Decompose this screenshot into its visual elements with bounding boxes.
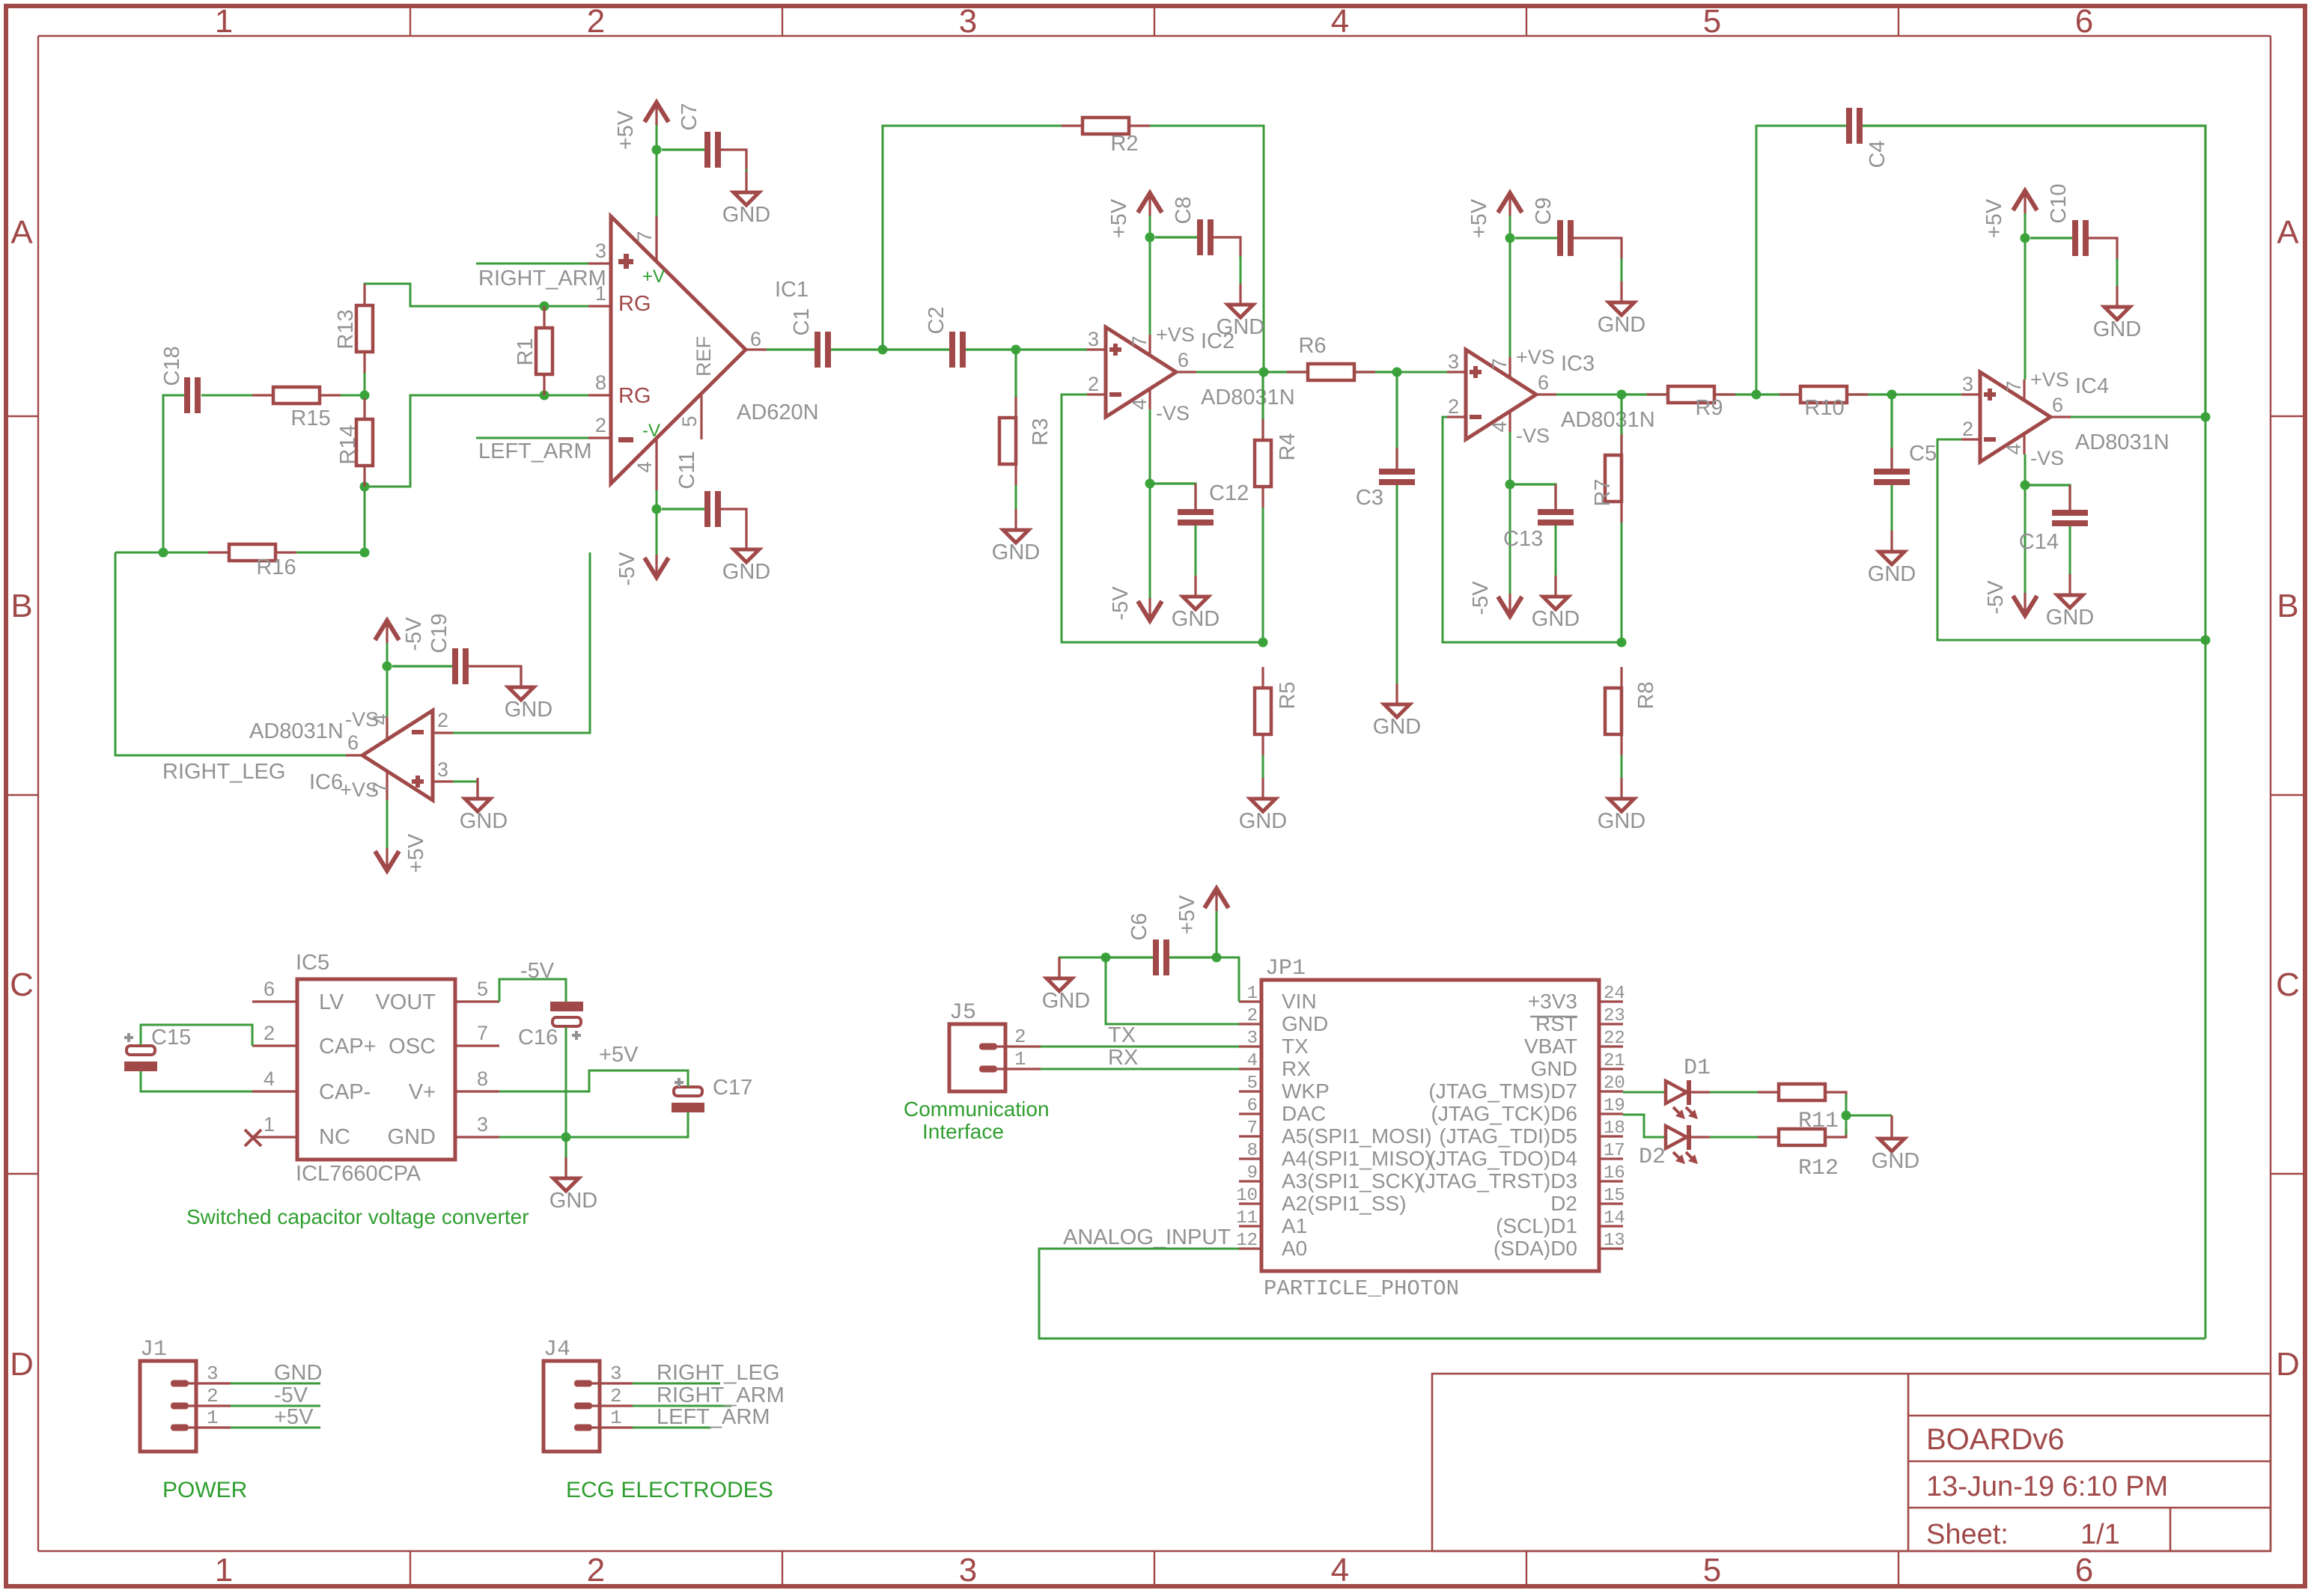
svg-text:+5V: +5V [614, 110, 638, 150]
svg-text:GND: GND [722, 560, 770, 584]
svg-text:(JTAG_TRST)D3: (JTAG_TRST)D3 [1418, 1169, 1577, 1193]
svg-text:4: 4 [1331, 1552, 1349, 1589]
junction IC4 VN node [2021, 481, 2030, 490]
svg-text:J1: J1 [140, 1337, 167, 1362]
wire C1 left lead [767, 348, 815, 350]
junction IC4 VP node [2021, 234, 2030, 243]
svg-text:VOUT: VOUT [375, 990, 436, 1014]
wire J4 pin3 [633, 1383, 720, 1385]
junction IC4 in node [1887, 390, 1897, 400]
svg-text:R5: R5 [1276, 681, 1300, 709]
wire LED gnd node wire [1845, 1094, 1848, 1135]
svg-text:2: 2 [264, 1022, 275, 1044]
wire V+ net [499, 1070, 688, 1091]
wire IC4 out [2071, 416, 2205, 418]
wire IC4 VP [2024, 213, 2027, 380]
svg-text:POWER: POWER [162, 1478, 247, 1502]
wire C1 right lead [831, 348, 883, 350]
junction IC4 fb node [2201, 636, 2211, 645]
svg-text:C3: C3 [1356, 486, 1383, 510]
net label LEFT_ARM [478, 439, 591, 463]
svg-text:+VS: +VS [2030, 368, 2069, 391]
resistor R6 [1298, 334, 1354, 380]
svg-text:-5V: -5V [615, 552, 639, 586]
svg-text:+5V: +5V [1467, 198, 1491, 238]
pin stubs (resistor leads) [208, 126, 2070, 755]
ground GND LED [1872, 1118, 1919, 1173]
wire IC6 VN [386, 643, 389, 716]
svg-text:-V: -V [642, 421, 660, 441]
svg-text:GND: GND [549, 1189, 597, 1213]
svg-text:1/1: 1/1 [2080, 1519, 2120, 1550]
wire D2 cathode lead [1691, 1136, 1710, 1138]
wire IC4 feedback [1937, 439, 2205, 640]
svg-text:3: 3 [595, 240, 606, 262]
wire J1 pin2 [231, 1405, 320, 1407]
connector J4 [544, 1337, 633, 1452]
svg-text:3: 3 [477, 1113, 488, 1136]
capacitor C3 [1379, 469, 1415, 485]
svg-text:R2: R2 [1110, 132, 1138, 156]
wire C6 gnd arm [1059, 957, 1106, 960]
svg-text:REF: REF [692, 336, 715, 377]
label C5 [1909, 442, 1937, 466]
svg-text:-5V: -5V [1984, 580, 2008, 615]
caption Communication Interface [904, 1097, 1050, 1143]
wire C12 top lead [1150, 484, 1196, 509]
wire C3 bottom [1396, 485, 1398, 683]
svg-text:R8: R8 [1634, 681, 1658, 709]
svg-text:6: 6 [750, 328, 761, 350]
svg-text:BOARDv6: BOARDv6 [1926, 1423, 2065, 1456]
junction C1C2 node [878, 345, 888, 355]
wire C9 right lead [1574, 238, 1622, 261]
wire J4 pin1 [633, 1427, 711, 1429]
ground GND R8 [1598, 778, 1645, 833]
wire C3 top lead [1395, 372, 1398, 469]
capacitor C13 [1538, 509, 1574, 526]
svg-text:+5V: +5V [1175, 895, 1199, 934]
wire C9 left lead [1515, 237, 1557, 239]
supply +5V IC6 [375, 833, 428, 873]
ground GND C13 [1532, 576, 1580, 631]
resistor R13 [334, 305, 373, 352]
wire R12 left lead [1758, 1136, 1779, 1138]
svg-text:JP1: JP1 [1265, 956, 1306, 981]
ground GND C6 [1042, 957, 1090, 1013]
wire D1-R11 [1710, 1091, 1758, 1094]
svg-text:GND: GND [1282, 1012, 1328, 1035]
svg-text:1: 1 [215, 1552, 233, 1589]
junction C6 right node [1212, 953, 1222, 963]
net labels J4 [657, 1361, 785, 1429]
svg-text:+VS: +VS [1156, 323, 1195, 346]
svg-text:1: 1 [1014, 1048, 1026, 1070]
svg-text:C5: C5 [1909, 442, 1937, 466]
wire IC6 pin2 [453, 552, 590, 733]
op-amp IC6 AD8031N [249, 708, 453, 801]
svg-text:C17: C17 [713, 1076, 752, 1100]
ground GND C7 [722, 171, 770, 227]
wire C9 gnd wire [1621, 258, 1623, 281]
svg-text:7: 7 [2003, 380, 2025, 392]
wire C6 left lead [1106, 956, 1153, 958]
supply +5V IC2 [1107, 193, 1162, 238]
svg-text:GND: GND [2093, 317, 2141, 341]
svg-text:RIGHT_ARM: RIGHT_ARM [657, 1383, 785, 1407]
svg-text:RG: RG [618, 384, 651, 408]
wire R11 left lead [1758, 1091, 1779, 1093]
wire C11 left lead [662, 508, 704, 510]
svg-text:R7: R7 [1591, 478, 1615, 506]
caption POWER [162, 1478, 247, 1502]
svg-text:2: 2 [1247, 1006, 1258, 1026]
capacitor C17 (polarized) [672, 1076, 752, 1112]
svg-text:CAP-: CAP- [319, 1080, 371, 1104]
svg-text:B: B [10, 588, 32, 624]
junction R16 node [360, 548, 370, 558]
svg-text:R6: R6 [1298, 334, 1326, 358]
svg-text:C19: C19 [427, 613, 451, 653]
capacitor C6 [1127, 913, 1169, 975]
wire R3 bottom [1015, 464, 1017, 509]
svg-text:Communication: Communication [904, 1097, 1050, 1121]
svg-text:+5V: +5V [599, 1043, 639, 1067]
wire C7 left lead [662, 148, 704, 150]
svg-text:15: 15 [1604, 1186, 1625, 1206]
svg-text:5: 5 [1703, 3, 1721, 40]
svg-text:20: 20 [1604, 1073, 1625, 1094]
svg-text:D: D [10, 1346, 34, 1383]
svg-text:4: 4 [1488, 421, 1511, 432]
resistor R1 [514, 328, 552, 374]
wire R9 left lead [1622, 393, 1668, 395]
wire IC2 VP [1149, 216, 1151, 335]
svg-text:IC3: IC3 [1561, 352, 1595, 376]
svg-text:2: 2 [1962, 418, 1973, 440]
svg-text:14: 14 [1604, 1208, 1625, 1228]
ground GND C12 [1172, 576, 1220, 631]
resistor R14 [336, 419, 373, 466]
label C13 [1503, 527, 1543, 551]
wire C11 right lead [721, 509, 746, 529]
svg-text:A4(SPI1_MISO): A4(SPI1_MISO) [1282, 1147, 1432, 1170]
wire C6 right lead [1169, 956, 1217, 958]
svg-text:D2: D2 [1550, 1192, 1577, 1215]
svg-text:-5V: -5V [274, 1383, 308, 1407]
op-amp IC2 AD8031N [1087, 323, 1295, 424]
wire C10 left lead [2030, 237, 2072, 239]
svg-text:LV: LV [319, 990, 344, 1014]
wire C15 bottom [141, 1071, 252, 1091]
svg-text:3: 3 [1962, 373, 1973, 395]
svg-text:ICL7660CPA: ICL7660CPA [296, 1162, 421, 1186]
wire LEFT_ARM [476, 437, 588, 439]
wire C7 gnd wire [746, 169, 748, 174]
svg-text:17: 17 [1604, 1141, 1625, 1161]
capacitor C9 [1532, 197, 1574, 256]
svg-text:+V: +V [642, 266, 665, 287]
svg-text:12: 12 [1236, 1231, 1258, 1251]
resistor R16 [229, 544, 296, 579]
svg-text:GND: GND [992, 540, 1040, 564]
wire IC4 out drop [2205, 417, 2207, 1338]
wire C17 bottom [499, 1112, 688, 1137]
svg-text:GND: GND [1531, 1057, 1577, 1080]
svg-text:C9: C9 [1532, 197, 1556, 225]
svg-text:RX: RX [1108, 1046, 1138, 1070]
wire C13 top lead [1510, 484, 1556, 509]
label R11 [1798, 1109, 1839, 1134]
LED D2 [1639, 1125, 1698, 1170]
svg-text:GND: GND [1172, 607, 1220, 631]
svg-text:GND: GND [1042, 989, 1090, 1013]
junction LED node [1842, 1111, 1851, 1121]
svg-text:R14: R14 [336, 424, 360, 464]
junction IC2 out node [1259, 368, 1269, 377]
svg-text:+VS: +VS [1516, 346, 1555, 368]
wire IC5 gnd drop [564, 1137, 567, 1178]
svg-text:18: 18 [1604, 1118, 1625, 1139]
resistor R3 [999, 418, 1053, 464]
wire GND arm [1106, 957, 1239, 1024]
ground GND IC5 [549, 1157, 597, 1213]
svg-text:GND: GND [1598, 313, 1645, 337]
svg-text:13: 13 [1604, 1231, 1625, 1251]
svg-text:3: 3 [437, 758, 448, 781]
svg-text:NC: NC [319, 1125, 350, 1149]
supply +5V JP1 [1175, 889, 1228, 934]
svg-text:8: 8 [595, 371, 606, 394]
wire C16 bottom [565, 1027, 567, 1137]
svg-text:6: 6 [1247, 1096, 1258, 1116]
resistor R12 [1779, 1129, 1825, 1145]
resistor R8 [1605, 681, 1658, 734]
junction IC5 gnd node [561, 1133, 571, 1142]
net label RIGHT_ARM [478, 266, 606, 290]
svg-text:5: 5 [1703, 1552, 1721, 1589]
svg-text:C6: C6 [1127, 913, 1151, 940]
svg-text:3: 3 [1448, 350, 1459, 373]
svg-text:6: 6 [2075, 3, 2093, 40]
svg-text:C14: C14 [2019, 530, 2059, 554]
svg-text:D2: D2 [1639, 1145, 1666, 1170]
connector J5 [949, 1000, 1041, 1091]
svg-text:24: 24 [1604, 984, 1625, 1004]
svg-text:C: C [10, 966, 34, 1003]
ground GND C5 [1868, 531, 1916, 586]
supply -5V IC2 [1109, 586, 1162, 621]
svg-text:6: 6 [2052, 394, 2063, 416]
svg-text:4: 4 [633, 461, 656, 472]
svg-text:6: 6 [1538, 371, 1549, 394]
svg-text:RG: RG [618, 292, 651, 316]
supply -5V IC4 [1984, 580, 2037, 615]
svg-text:5: 5 [678, 415, 701, 427]
svg-text:R15: R15 [290, 406, 330, 430]
supply +5V IC3 [1467, 193, 1522, 238]
wire IC4 in wire [1892, 394, 1961, 396]
wire TX wire [1041, 1046, 1239, 1048]
caption ECG ELECTRODES [566, 1478, 773, 1502]
svg-text:6: 6 [264, 978, 275, 1000]
LED D1 [1666, 1056, 1711, 1119]
wire R6 left lead [1264, 371, 1308, 373]
svg-text:VBAT: VBAT [1524, 1035, 1577, 1058]
svg-text:ECG ELECTRODES: ECG ELECTRODES [566, 1478, 773, 1502]
resistor R2 [1083, 118, 1139, 156]
capacitor C1 [790, 308, 831, 368]
op-amp IC4 AD8031N [1961, 368, 2170, 469]
svg-text:-VS: -VS [1516, 424, 1550, 447]
wire IC3 out [1556, 394, 1622, 396]
wire C12 bottom [1195, 526, 1197, 576]
svg-text:4: 4 [1128, 398, 1151, 409]
capacitor C12 [1178, 481, 1249, 526]
resistor R15 [273, 387, 331, 430]
wire C7 right lead [721, 150, 746, 171]
capacitor C11 [675, 451, 721, 527]
wire VN IC1 [656, 490, 658, 555]
wire IC2 feedback [1062, 395, 1263, 642]
svg-text:DAC: DAC [1282, 1102, 1326, 1125]
svg-text:D1: D1 [1684, 1056, 1711, 1081]
svg-text:C4: C4 [1866, 140, 1890, 168]
op-amp IC1 AD620N [588, 215, 819, 490]
svg-text:IC6: IC6 [309, 770, 343, 794]
resistor R9 [1668, 386, 1723, 420]
wire RIGHT_ARM [476, 263, 588, 265]
wire R15 left [201, 395, 273, 397]
junction IC3 fb node [1617, 638, 1627, 648]
junction RG8 node [360, 482, 370, 492]
svg-text:IC1: IC1 [775, 278, 809, 302]
svg-text:PARTICLE_PHOTON: PARTICLE_PHOTON [1264, 1276, 1459, 1301]
svg-text:13-Jun-19 6:10 PM: 13-Jun-19 6:10 PM [1926, 1471, 2168, 1502]
wire R16 left [115, 552, 229, 554]
svg-text:A1: A1 [1282, 1214, 1307, 1237]
wire R6 right lead [1354, 371, 1397, 373]
junction C2R3 node [1011, 345, 1021, 355]
svg-text:(JTAG_TCK)D6: (JTAG_TCK)D6 [1431, 1102, 1578, 1125]
svg-text:V+: V+ [409, 1080, 436, 1104]
op-amp IC3 AD8031N [1447, 346, 1655, 447]
svg-text:2: 2 [610, 1385, 622, 1407]
wire C15 top [141, 1025, 252, 1046]
svg-text:+5V: +5V [274, 1405, 314, 1429]
wire C5 bottom [1891, 485, 1893, 531]
wire VIN arm [1217, 957, 1239, 1002]
wire C2 left lead [883, 348, 949, 350]
svg-text:GND: GND [1217, 315, 1264, 339]
wire R7 top lead [1620, 395, 1622, 455]
wire J4 pin2 [633, 1405, 731, 1407]
svg-text:22: 22 [1604, 1029, 1625, 1049]
svg-text:2: 2 [595, 414, 606, 436]
ground GND IC6 [460, 778, 508, 833]
wire R12 right lead [1825, 1129, 1846, 1137]
wire C5 top lead [1890, 395, 1893, 469]
capacitor C18 [160, 346, 201, 413]
capacitor C8 [1172, 196, 1214, 255]
svg-text:+3V3: +3V3 [1528, 990, 1577, 1013]
wire LED gnd drop [1890, 1115, 1893, 1139]
svg-text:AD8031N: AD8031N [1201, 386, 1295, 409]
capacitor C10 [2047, 183, 2089, 256]
svg-text:C2: C2 [925, 306, 949, 334]
svg-text:C11: C11 [675, 451, 699, 489]
svg-text:10: 10 [1236, 1186, 1258, 1206]
wire IC3 in wire [1397, 371, 1447, 374]
svg-text:(JTAG_TDI)D5: (JTAG_TDI)D5 [1439, 1124, 1577, 1148]
IC JP1 PARTICLE_PHOTON [1236, 956, 1625, 1301]
svg-text:GND: GND [1239, 809, 1287, 833]
svg-text:R3: R3 [1029, 418, 1053, 445]
wire IC2 VN [1149, 409, 1151, 599]
label R12 [1798, 1156, 1839, 1181]
wire D1 cathode lead [1691, 1091, 1710, 1093]
wire R7 bottom [1621, 502, 1623, 642]
svg-text:19: 19 [1604, 1096, 1625, 1116]
svg-text:TX: TX [1108, 1023, 1136, 1047]
svg-text:4: 4 [1247, 1051, 1258, 1071]
wire R5 bottom [1262, 734, 1264, 799]
capacitor C2 [925, 306, 966, 368]
supply +5V IC1 [614, 103, 669, 150]
svg-text:C18: C18 [160, 346, 184, 386]
svg-text:3: 3 [207, 1362, 219, 1385]
wire C13 bottom [1555, 526, 1557, 576]
svg-text:2: 2 [587, 3, 605, 40]
svg-text:5: 5 [477, 978, 488, 1000]
wire IC2 out [1196, 371, 1264, 374]
svg-text:+5V: +5V [1982, 198, 2006, 238]
wire IC6 pin3 drop [476, 782, 478, 799]
wire C8 right lead [1214, 237, 1240, 258]
svg-text:J4: J4 [544, 1337, 570, 1362]
svg-text:LEFT_ARM: LEFT_ARM [657, 1405, 770, 1429]
junction IC3 VP node [1505, 234, 1515, 243]
svg-text:3: 3 [1247, 1029, 1258, 1049]
svg-text:2: 2 [207, 1385, 219, 1407]
svg-text:OSC: OSC [389, 1035, 436, 1059]
svg-text:(SCL)D1: (SCL)D1 [1496, 1214, 1577, 1237]
svg-text:3: 3 [959, 1552, 977, 1589]
svg-text:5: 5 [1247, 1073, 1258, 1094]
junction VP IC1 node [652, 145, 662, 155]
net label ANALOG_INPUT [1063, 1225, 1231, 1249]
svg-text:9: 9 [1247, 1163, 1258, 1184]
junction IC2 VN node [1145, 479, 1155, 489]
wire IC3 VP [1509, 216, 1511, 357]
svg-text:C8: C8 [1172, 196, 1196, 224]
wire C4 right lead [1863, 126, 2205, 417]
wire J1 pin1 [231, 1427, 320, 1429]
wire D1 anode [1623, 1091, 1666, 1094]
ground GND R3 [992, 509, 1040, 564]
IC5 ICL7660CPA [245, 951, 499, 1186]
wire C8 gnd wire [1240, 256, 1242, 284]
svg-text:R12: R12 [1798, 1156, 1839, 1181]
svg-text:2: 2 [1448, 395, 1459, 418]
svg-text:7: 7 [477, 1022, 488, 1044]
wire IC3 feedback [1443, 417, 1622, 642]
supply -5V IC6 [375, 617, 426, 651]
svg-text:(JTAG_TMS)D7: (JTAG_TMS)D7 [1428, 1079, 1577, 1103]
svg-text:GND: GND [1868, 562, 1916, 586]
wire VOUT to C16 [499, 979, 566, 1002]
resistor R10 [1800, 386, 1847, 420]
